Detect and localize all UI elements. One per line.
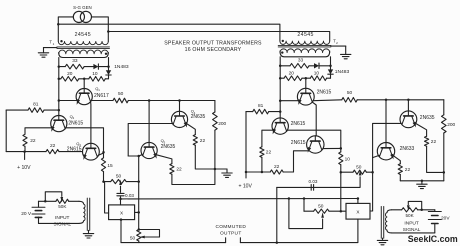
node Q7 base tap: [385, 99, 388, 102]
wire Q1 base stub: [83, 79, 85, 89]
svg-text:0.03: 0.03: [125, 193, 134, 198]
svg-text:22: 22: [30, 138, 36, 144]
resistor 200 right: [442, 115, 447, 133]
wire 22 down to node: [427, 146, 444, 172]
node Q5 emitter: [137, 155, 140, 158]
transistor Q2r: [272, 118, 288, 134]
svg-text:SIGNAL: SIGNAL: [403, 227, 421, 233]
svg-text:2N617: 2N617: [94, 93, 109, 99]
transistor Q3r: [307, 136, 324, 153]
wire Q1r collector down to Q3r base: [312, 102, 316, 136]
ground input right: [382, 238, 384, 240]
transformer T1 core: [57, 46, 110, 48]
svg-text:22: 22: [431, 139, 437, 145]
svg-text:16 OHM SECONDARY: 16 OHM SECONDARY: [185, 47, 242, 53]
resistor 22 under Q5: [170, 164, 174, 175]
svg-text:X: X: [356, 210, 360, 215]
resistor 10: [89, 77, 106, 82]
transformer T1 primary winding: [58, 41, 108, 44]
wire T1 secondary left rail down to Q2 base: [58, 58, 60, 116]
wire input loop bottom left: [39, 222, 80, 224]
wire Q1 collector row to 50: [91, 100, 113, 102]
resistor 20: [61, 77, 79, 82]
wiper loop bottom pot: [139, 230, 160, 238]
node pot right / emitter rail: [371, 171, 374, 174]
wire Q3 collector to node: [98, 153, 103, 155]
node ground stem right: [421, 180, 424, 183]
wire to ground: [215, 168, 227, 170]
node bus pot left tap: [303, 197, 306, 200]
wire Q2 emitter to 22: [25, 128, 52, 134]
node wiper tap right: [420, 209, 423, 212]
terminal commuted output left: [225, 238, 227, 243]
svg-text:2N615: 2N615: [291, 140, 306, 146]
svg-text:50K: 50K: [58, 204, 67, 209]
svg-text:24545: 24545: [75, 32, 91, 38]
input transformer core left: [86, 198, 88, 230]
phase dot T2 secondary: [281, 51, 283, 53]
node X box right: [137, 211, 140, 214]
svg-text:22: 22: [405, 167, 411, 173]
resistor 22 under Q6: [425, 136, 429, 146]
svg-text:81: 81: [258, 103, 264, 109]
svg-text:33: 33: [298, 57, 304, 63]
potentiometer 50 bottom right: [304, 210, 314, 212]
wire Q7 emitter to rail: [373, 155, 380, 157]
wire 20-10 row: [59, 78, 61, 80]
wire lower ground row right: [400, 180, 444, 182]
svg-text:S-G GEN: S-G GEN: [73, 5, 92, 10]
svg-text:50: 50: [118, 91, 124, 97]
node Q4 base tap: [178, 99, 181, 102]
svg-text:10: 10: [345, 156, 351, 162]
node pot right: [137, 180, 140, 183]
input transformer core right: [380, 207, 382, 239]
phase dot T1 primary: [60, 40, 62, 42]
resistor 33: [65, 64, 84, 69]
resistor 81 right: [253, 109, 269, 114]
wire commuted output bus: [121, 198, 358, 200]
wire Q4 collector to 22: [187, 124, 196, 135]
svg-text:33: 33: [72, 58, 78, 64]
svg-text:2N635: 2N635: [191, 114, 206, 120]
multiplier X box left: [109, 205, 135, 220]
svg-text:22: 22: [50, 143, 56, 149]
resistor 22 horizontal right: [270, 170, 283, 174]
capacitor 0.03 left: [117, 192, 124, 194]
input transformer winding left: [79, 201, 84, 204]
svg-text:81: 81: [33, 102, 39, 108]
svg-text:X: X: [120, 211, 124, 216]
wire Q2 collector over to Q3 collector rail: [66, 128, 104, 152]
potentiometer 50K right: [402, 208, 418, 212]
wire T2 secondary left rail to Q2r base: [279, 57, 281, 118]
node 33 row right rail: [107, 65, 110, 68]
svg-text:INPUT: INPUT: [55, 215, 69, 221]
resistor 50 right: [342, 98, 357, 103]
diode CR3: [314, 63, 319, 68]
node pot right rail: [340, 210, 343, 213]
svg-text:+ 10V: + 10V: [238, 184, 252, 190]
svg-text:50: 50: [347, 90, 353, 96]
transistor Q5: [141, 142, 157, 158]
svg-text:10: 10: [314, 70, 320, 76]
wire Q4 base vertical: [179, 101, 181, 112]
wire pot left vertical: [303, 199, 305, 212]
wire cap branch down to bottom rail: [276, 187, 278, 242]
ground mid left: [226, 169, 228, 173]
wire loop to winding: [69, 200, 79, 202]
node X bottom: [120, 218, 123, 221]
transistor Q7: [377, 143, 394, 160]
capacitor 0.03 right: [310, 185, 312, 191]
resistor 22 under Q2 emitter: [23, 134, 27, 146]
wire X box right side: [135, 211, 139, 213]
svg-text:1N483: 1N483: [335, 69, 350, 75]
svg-text:OUTPUT: OUTPUT: [220, 231, 242, 237]
resistor 22 under Q2r: [260, 147, 264, 158]
wire lower long run to T2 primary right: [108, 32, 329, 42]
multiplier X box right: [346, 203, 370, 219]
svg-text:200: 200: [447, 122, 455, 128]
node 33r row left: [279, 65, 282, 68]
wire 81r row: [269, 111, 281, 113]
svg-text:SIGNAL: SIGNAL: [53, 222, 71, 228]
svg-text:22: 22: [266, 149, 272, 155]
resistor 33 right: [290, 64, 309, 69]
potentiometer 50 left: [104, 181, 111, 183]
svg-text:50: 50: [318, 203, 324, 209]
wire T1 secondary right rail: [108, 58, 110, 67]
wire Q6 base vertical: [407, 100, 409, 111]
wire generator left to T1 primary left: [58, 17, 73, 42]
node wiper tap left: [44, 200, 47, 203]
wire 33r row: [280, 65, 290, 67]
wire right row corner into 200: [443, 100, 445, 115]
wire Q6 collector to 22: [416, 123, 427, 136]
node Q1r base tap: [305, 77, 308, 80]
svg-text:50: 50: [116, 173, 122, 179]
wire Q5 emitter node: [139, 155, 142, 156]
resistor 15: [103, 152, 105, 158]
wire Q7 base vertical: [385, 100, 387, 143]
wire +10V row right: [246, 171, 270, 173]
svg-text:20: 20: [67, 71, 73, 77]
node X box top bus: [357, 197, 360, 200]
svg-text:20 V: 20 V: [21, 211, 32, 217]
wiper 50K right: [408, 201, 421, 209]
resistor 200: [213, 112, 218, 130]
wire up to Q3r emitter: [294, 151, 309, 172]
node cap to commuted bus: [119, 198, 122, 201]
wire 20r-10r row: [280, 77, 284, 79]
node 22 bottom +10V: [23, 150, 26, 153]
wiper 50K left: [45, 192, 62, 202]
transformer T2 secondary winding: [280, 51, 330, 57]
svg-text:2N635: 2N635: [420, 115, 435, 121]
svg-text:10: 10: [92, 71, 98, 77]
resistor 20 right: [284, 76, 302, 81]
wire Q5 base vertical: [148, 101, 150, 143]
wire amp rail down to X box right: [340, 172, 342, 211]
svg-text:2N633: 2N633: [400, 146, 415, 152]
svg-text:2N635: 2N635: [161, 144, 176, 150]
wire Q2r collector to Q3r collector node: [287, 130, 341, 148]
transistor Q6: [400, 111, 417, 128]
wire input loop bottom right: [392, 232, 435, 234]
potentiometer 50 bottom: [137, 230, 141, 242]
svg-text:24545: 24545: [297, 32, 313, 38]
potentiometer 50 right mid: [341, 171, 353, 173]
svg-text:15: 15: [107, 163, 113, 169]
resistor 22 horizontal left: [46, 150, 59, 154]
wire +10V row: [6, 151, 46, 153]
svg-text:50: 50: [356, 164, 362, 170]
node bus wiper loop right: [288, 197, 291, 200]
phase dot T1 secondary: [105, 53, 107, 55]
wire Q4 emitter left and down: [128, 124, 172, 157]
wire right output row: [357, 99, 444, 101]
svg-text:2: 2: [73, 116, 75, 120]
svg-text:22: 22: [200, 138, 206, 144]
transistor Q3: [83, 143, 100, 160]
svg-text:SeekIC.com: SeekIC.com: [408, 234, 458, 244]
node 22r bottom: [261, 171, 264, 174]
potentiometer 50K left: [56, 199, 69, 203]
resistor 10 vertical right: [340, 148, 342, 152]
wire Q1 collector down to Q3 base: [90, 102, 92, 143]
wire T1 core to ground: [44, 47, 57, 49]
node 10r bottom pot left: [340, 171, 343, 174]
diode CR1: [93, 64, 98, 69]
terminal commuted output right: [239, 238, 241, 243]
wire 81r down to +10V row: [245, 112, 247, 172]
node ground bus left half: [214, 168, 217, 171]
resistor 50 left: [113, 98, 128, 103]
svg-text:22: 22: [176, 166, 182, 172]
ground T1: [43, 48, 45, 53]
wire Q1r base stub: [305, 78, 307, 88]
wire 22 to ground node: [195, 145, 215, 169]
svg-text:2N615: 2N615: [67, 146, 82, 152]
diode CR4 vertical: [330, 66, 332, 70]
diode CR2 vertical: [108, 67, 110, 71]
wire bottom rail left segment: [121, 242, 226, 244]
svg-text:2N615: 2N615: [291, 121, 306, 127]
svg-text:20V: 20V: [441, 216, 450, 222]
wire 81 row: [44, 109, 59, 111]
wire Q1r collector row: [313, 99, 342, 102]
input transformer winding right: [387, 210, 392, 213]
battery 20V left: [32, 206, 45, 208]
wire X box right side: [370, 210, 373, 212]
transformer T2 core: [278, 44, 331, 46]
phase dot T2 primary: [282, 40, 284, 42]
svg-text:1: 1: [53, 42, 55, 46]
wire upper long run to T2 primary left: [58, 24, 280, 41]
wire input loop top left: [39, 200, 56, 202]
transistor Q1r: [297, 88, 314, 105]
node 81r bottom: [245, 171, 248, 174]
node 15 bottom pot left: [102, 180, 105, 183]
power +10V stub right: [245, 172, 247, 178]
wire input loop top right: [392, 209, 402, 211]
wire output row to 200: [128, 100, 215, 102]
transformer T2 primary winding: [280, 41, 330, 44]
wire X box bottom stub: [120, 220, 122, 243]
node 20-row left: [58, 78, 61, 81]
svg-text:+ 10V: + 10V: [17, 165, 31, 171]
node Q1r emitter rail: [279, 99, 282, 102]
wire wiper loop bottom pot right: [289, 199, 323, 229]
svg-text:50: 50: [130, 235, 136, 241]
node 20r row left: [279, 77, 282, 80]
node bottom rail cap branch: [276, 241, 279, 244]
node Q1 base tap: [83, 78, 86, 81]
resistor 81: [28, 108, 44, 113]
svg-text:0.03: 0.03: [309, 179, 318, 184]
node bottom pot top: [138, 228, 141, 231]
node 33r row right rail: [329, 65, 332, 68]
wire 33 row: [59, 66, 65, 68]
node 81 rail junction: [58, 109, 61, 112]
wire output row corner into 200: [214, 101, 216, 113]
transistor Q4: [171, 111, 187, 127]
svg-text:2N615: 2N615: [317, 90, 332, 96]
wire far-left rail +10V feed: [5, 110, 7, 152]
node Q5 base tap: [148, 99, 151, 102]
resistor 22 under Q4: [193, 135, 197, 146]
wire 22 up to ground node: [172, 169, 215, 185]
resistor 10 right: [310, 76, 326, 81]
transformer T1 secondary winding: [59, 52, 109, 57]
wire Q7 collector to 22: [393, 155, 400, 163]
node generator left tap: [57, 23, 60, 26]
wire X box top stub: [357, 199, 359, 204]
power +10V stub left: [24, 152, 26, 160]
node Q6 base tap: [407, 99, 410, 102]
generator S-G GEN: [73, 11, 84, 22]
svg-text:INPUT: INPUT: [404, 221, 418, 227]
ground mid right: [421, 181, 423, 184]
node Q3r collector / 10 top: [340, 147, 343, 150]
svg-text:COMMUTED: COMMUTED: [215, 224, 246, 230]
wire bottom rail right segment: [240, 219, 358, 243]
svg-text:50K: 50K: [406, 213, 415, 218]
node generator right tap: [107, 30, 110, 33]
wire Q5 emitter down rail: [138, 156, 140, 230]
ground input left: [88, 230, 90, 233]
wire Q5 collector to 22: [156, 155, 172, 164]
svg-text:200: 200: [218, 121, 226, 127]
wire X box left side: [105, 182, 109, 213]
wire T2 core to ground: [331, 45, 346, 47]
svg-text:22: 22: [274, 164, 280, 170]
svg-text:1N483: 1N483: [114, 64, 129, 70]
node Q3 collector / 15 top: [102, 151, 105, 154]
node Q1 emitter rail: [58, 99, 61, 102]
resistor 22 under Q7: [398, 164, 402, 175]
wire generator right to T1 primary right: [92, 17, 109, 42]
wire Q6 emitter left and down: [373, 123, 402, 157]
wire Q7-Q6 emitter rail down: [372, 158, 374, 211]
svg-text:2N615: 2N615: [68, 121, 83, 127]
node 200r bottom: [443, 171, 446, 174]
wire Q1 emitter to left rail: [59, 100, 77, 102]
wire X box left side right half: [341, 210, 346, 212]
wire Q2r emitter to 22: [262, 130, 273, 147]
svg-text:2: 2: [336, 41, 338, 45]
wiper arrow pot right mid: [359, 170, 362, 175]
wiper arrow pot 50 left: [119, 180, 122, 185]
ground T2: [345, 46, 347, 54]
node 81r rail junction: [279, 110, 282, 113]
wire Q1r emitter to rail: [280, 100, 298, 102]
svg-text:SPEAKER OUTPUT TRANSFORMERS: SPEAKER OUTPUT TRANSFORMERS: [164, 41, 262, 47]
battery 20V right: [428, 211, 441, 213]
wire Q3r collector to node: [323, 147, 341, 149]
wire T2 secondary right rail: [330, 57, 332, 66]
svg-text:1: 1: [98, 88, 100, 92]
svg-text:20: 20: [289, 71, 295, 77]
node 33-row left: [58, 65, 61, 68]
transistor Q2: [51, 116, 67, 132]
transistor Q1: [76, 89, 92, 105]
